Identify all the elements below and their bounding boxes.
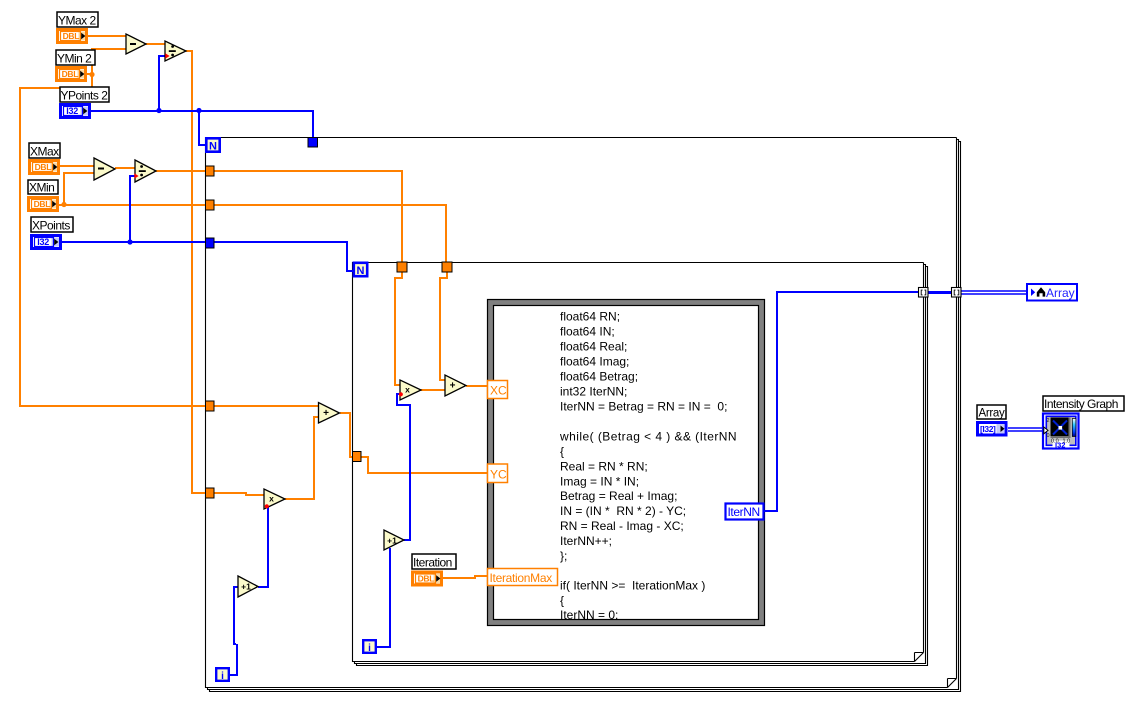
svg-text:x: x [405,385,410,395]
svg-text:Intensity Graph: Intensity Graph [1044,397,1118,411]
svg-text:XPoints: XPoints [32,219,70,233]
svg-text:float64 RN;: float64 RN; [560,310,620,324]
svg-text:2: 2 [1047,418,1050,424]
svg-text:IN = (IN * RN * 2) - YC;: IN = (IN * RN * 2) - YC; [560,504,686,518]
svg-text:i: i [221,671,224,682]
svg-text:1.0: 1.0 [1063,439,1071,445]
svg-text:x: x [269,494,274,504]
svg-text:YMax 2: YMax 2 [58,14,97,28]
svg-text:Betrag = Real + Imag;: Betrag = Real + Imag; [560,489,677,503]
svg-text:N: N [357,265,365,277]
svg-text:IterNN = Betrag = RN = IN = 0: IterNN = Betrag = RN = IN = 0; [560,400,727,414]
svg-text:float64 Imag;: float64 Imag; [560,355,629,369]
svg-text:+1: +1 [387,536,397,546]
svg-text:{: { [560,445,564,459]
svg-text:0.0: 0.0 [1051,439,1059,445]
svg-text:+: + [450,381,456,392]
svg-text:Array: Array [979,408,1006,420]
svg-text:YMin 2: YMin 2 [57,52,92,66]
svg-text:float64 Betrag;: float64 Betrag; [560,370,638,384]
svg-text:float64 IN;: float64 IN; [560,325,615,339]
svg-text:{: { [560,594,564,608]
svg-text:0: 0 [1047,433,1050,439]
svg-text:IterNN = 0:: IterNN = 0: [560,608,618,622]
svg-text:XMin: XMin [29,181,54,195]
svg-text:Array: Array [1046,286,1075,300]
svg-text:[I32]: [I32] [980,424,996,434]
svg-text:+1: +1 [241,582,251,592]
svg-text:Real = RN * RN;: Real = RN * RN; [560,460,648,474]
svg-text:IterationMax: IterationMax [490,571,553,585]
svg-text:IterNN: IterNN [728,505,760,519]
svg-text:YC: YC [490,468,507,482]
svg-text:RN = Real - Imag - XC;: RN = Real - Imag - XC; [560,519,684,533]
svg-text:};: }; [560,549,567,563]
svg-text:Iteration: Iteration [413,556,452,570]
svg-text:float64 Real;: float64 Real; [560,340,627,354]
svg-text:YPoints 2: YPoints 2 [61,89,109,103]
svg-text:XC: XC [490,384,507,398]
svg-text:while( (Betrag < 4 ) && (IterN: while( (Betrag < 4 ) && (IterNN [559,430,737,444]
svg-text:if( IterNN >= IterationMax ): if( IterNN >= IterationMax ) [560,579,705,593]
svg-text:Imag = IN * IN;: Imag = IN * IN; [560,475,639,489]
svg-text:N: N [209,141,217,153]
svg-text:XMax: XMax [30,145,59,159]
svg-text:+: + [323,408,329,419]
svg-text:i: i [368,643,371,654]
svg-text:IterNN++;: IterNN++; [560,534,612,548]
svg-text:int32 IterNN;: int32 IterNN; [560,385,627,399]
